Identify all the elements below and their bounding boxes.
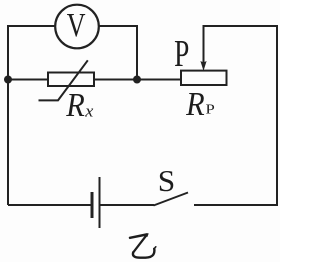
wire: battery to switch pivot xyxy=(100,204,154,206)
battery long plate xyxy=(99,177,101,228)
wire: Rx right to RP left terminal xyxy=(94,79,181,81)
node A junction dot left xyxy=(4,76,12,84)
voltmeter U1 circle xyxy=(55,5,99,49)
svg-text:R: R xyxy=(185,85,205,123)
switch S lever xyxy=(154,193,189,206)
svg-text:V: V xyxy=(67,7,86,44)
svg-text:R: R xyxy=(65,85,85,123)
svg-text:x: x xyxy=(84,101,93,120)
wire: Rx row left segment xyxy=(8,79,48,81)
svg-text:P: P xyxy=(206,102,215,117)
svg-text:P: P xyxy=(174,33,189,76)
caption 乙 (drawn glyph) xyxy=(130,233,156,258)
node B junction dot right xyxy=(133,76,141,84)
wire: wiper up, top-right across, right vertical down, to switch xyxy=(194,26,277,205)
potentiometer RP body xyxy=(181,71,227,85)
resistor Rx variable slash xyxy=(39,60,88,100)
wire: voltmeter right to drop into Rx node xyxy=(99,26,137,79)
potentiometer wiper arrowhead xyxy=(200,61,206,71)
wire: bottom-left to battery xyxy=(8,204,91,206)
wire: left vertical + top-left segment to voltmeter xyxy=(8,26,55,205)
svg-text:S: S xyxy=(158,164,175,198)
resistor Rx body xyxy=(48,73,94,87)
battery short plate xyxy=(91,192,94,218)
